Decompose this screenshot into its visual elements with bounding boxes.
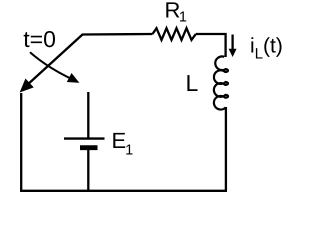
label iL(t) [251,37,281,58]
wire top (switch to resistor) [82,33,153,36]
wire left [20,93,22,192]
battery E1 short thick plate [80,145,98,150]
inductor L coil [214,56,228,109]
switch SW1 blade [26,35,83,87]
battery E1 long plate [64,137,105,139]
current arrow iL [231,35,233,51]
label L [187,75,197,91]
switch motion arrowhead [68,74,79,82]
label t=0 [24,31,55,47]
switch SW1 arrowhead [21,80,32,91]
battery E1 top wire [87,92,89,138]
battery E1 bottom wire [87,150,89,191]
switch motion curved arrow [30,52,75,80]
label E1 [113,133,132,155]
wire inductor to bottom-right corner [225,107,227,191]
wire resistor to top-right corner, then down to inductor [196,34,226,57]
current arrow iL arrowhead [229,49,237,57]
label R1 [166,2,186,21]
wire bottom [20,190,227,192]
resistor R1 zigzag [153,28,196,40]
